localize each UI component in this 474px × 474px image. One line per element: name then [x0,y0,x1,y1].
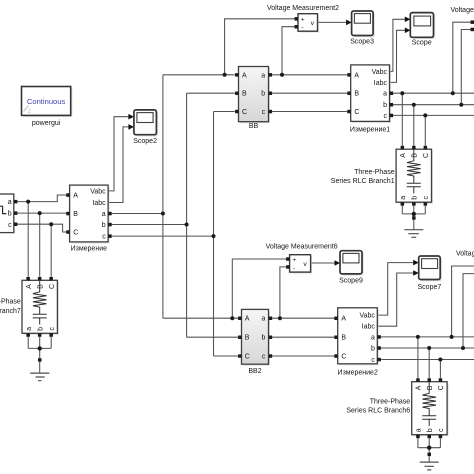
wire Измерение Vabc to Scope2 input 1 [108,117,131,191]
svg-text:Scope: Scope [412,40,432,47]
arrow input 1 Scope [405,17,411,23]
port C of BB2 [238,354,242,358]
svg-text:Scope3: Scope3 [350,38,374,45]
port B of BB [235,92,239,96]
right voltage measurement (cut off at edge) [451,7,474,31]
voltage measurement U-VM2 [267,5,339,32]
svg-text:c: c [384,113,388,120]
svg-text:c: c [49,327,56,331]
port B of RLC1 [412,146,416,150]
port b of source [14,211,18,215]
svg-text:Измерение2: Измерение2 [338,370,378,377]
svg-text:Voltage Measureme: Voltage Measureme [451,7,474,14]
wire BB b to Измерение1 B [272,92,347,94]
wire node b drop to RLC Branch7 B [39,213,41,277]
node junction VM6 plus tap [230,316,234,320]
port c of Измерение1 [390,114,394,118]
port B of Измерение2 [334,336,338,340]
svg-text:c: c [371,357,375,364]
svg-text:A: A [416,385,423,390]
port a of RLC7 [26,333,30,337]
port A of BB2 [238,317,242,321]
svg-text:Series RLC Branch1: Series RLC Branch1 [331,178,395,185]
wire into BB2 A [163,317,238,319]
svg-text:a: a [8,199,12,206]
wire source a to Измерение A [17,195,66,202]
port c of Измерение [108,234,112,238]
wire RLC6 abc tie to ground [418,438,441,461]
wire Измерение b to bus vertical B [112,224,187,226]
port B of RLC6 [428,378,432,382]
node junction VM2 plus tap [223,73,227,77]
wire BB2 c to Измерение2 C [272,355,334,357]
port C of Измерение [66,230,70,234]
svg-text:Iabc: Iabc [374,80,388,87]
measurement block Измерение2 [334,308,381,377]
svg-text:a: a [102,211,106,218]
port plus of VM2 [295,17,299,21]
node junction RLC1 C tap [423,113,427,117]
wire bus vertical phase A [162,75,164,318]
scope Scope2 [128,110,158,145]
wire BB2 b to Измерение2 B [272,336,334,338]
port A of RLC1 [401,146,405,150]
port B of Измерение [66,212,70,216]
svg-text:Voltage Measurement6: Voltage Measurement6 [266,243,338,250]
arrow input Scope3 [346,20,352,26]
arrow input 2 Scope [405,28,411,34]
svg-text:A: A [73,193,78,200]
resistor zigzag of RLC7 [33,281,47,314]
breaker block BB2 [238,309,272,375]
svg-text:Series RLC Branch7: Series RLC Branch7 [0,308,21,315]
ground under RLC1 [402,206,425,238]
node junction right VM plus tap [451,91,455,95]
port A of Измерение [66,193,70,197]
scope Scope9 [335,251,364,285]
port c of Измерение2 [377,358,381,362]
svg-text:b: b [37,327,44,331]
measurement block Измерение [66,185,112,252]
wire Измерение Iabc to Scope2 input 2 [108,127,131,203]
port c of BB2 [269,354,273,358]
svg-text:b: b [427,428,434,432]
wire phase a up to lower right Voltage Measurement plus [452,266,474,337]
capacitor of RLC1 [407,183,421,193]
port a of BB2 [269,317,273,321]
svg-text:C: C [354,109,359,116]
scope Scope [405,13,435,47]
svg-text:powergui: powergui [32,120,61,127]
port A of Измерение2 [334,317,338,321]
svg-text:A: A [242,72,247,79]
svg-text:-: - [301,25,303,32]
svg-text:c: c [262,109,266,116]
wire node c drop to RLC Branch7 C [50,224,52,276]
svg-text:b: b [383,102,387,109]
port a of RLC1 [401,202,405,206]
port A of RLC6 [416,378,420,382]
svg-text:b: b [411,196,418,200]
port minus of right VM [471,28,474,32]
resistor zigzag of RLC6 [422,382,436,415]
port a of BB [269,73,273,77]
svg-text:c: c [262,354,266,361]
node junction bus B [185,223,189,227]
svg-text:B: B [354,91,359,98]
ground under RLC7 [28,337,51,381]
port C of Измерение1 [347,110,351,114]
svg-text:C: C [73,230,78,237]
port A of RLC7 [26,277,30,281]
svg-text:-: - [293,265,295,272]
svg-text:Series RLC Branch6: Series RLC Branch6 [346,408,410,415]
wire Измерение2 Iabc to Scope7 input 2 [377,273,413,326]
wire into BB2 C [214,355,239,357]
svg-text:a: a [383,91,387,98]
node junction RLC6 C tap [438,358,442,362]
svg-text:Измерение: Измерение [71,245,108,252]
wire to Voltage Measurement2 plus [225,19,295,75]
node junction source b / RLC7 B [38,211,42,215]
port b of RLC6 [428,435,432,439]
wire BB2 a to Измерение2 A [272,317,334,319]
svg-text:Измерение1: Измерение1 [350,127,390,134]
svg-text:Iabc: Iabc [92,200,106,207]
port a of Измерение2 [377,335,381,339]
wire Измерение2 Vabc to Scope7 input 1 [377,263,413,316]
svg-text:Three-Phase: Three-Phase [354,169,395,176]
svg-text:b: b [261,91,265,98]
port b of RLC7 [38,333,42,337]
svg-text:A: A [26,284,33,289]
svg-text:A: A [341,316,346,323]
svg-text:Voltage Me: Voltage Me [456,250,474,257]
port b of BB2 [269,336,273,340]
node junction RLC1 B tap [412,103,416,107]
wire Измерение2 c to right edge [381,359,474,361]
node junction RLC1 A tap [400,91,404,95]
arrow input 2 Scope7 [413,270,419,276]
wire Voltage Measurement6 v to Scope9 [312,262,335,264]
port C of BB [235,110,239,114]
node junction RLC6 A tap [416,335,420,339]
wire source c to Измерение C [17,224,66,232]
svg-text:a: a [26,327,33,331]
node junction lower right VM plus tap [450,335,454,339]
svg-text:v: v [303,261,307,268]
node junction RLC6 B tap [427,346,431,350]
port a of Измерение1 [390,92,394,96]
svg-text:+: + [301,17,305,24]
svg-text:B: B [245,335,250,342]
svg-text:b: b [8,211,12,218]
svg-text:+: + [292,257,296,264]
port A of Измерение1 [347,73,351,77]
node junction VM6 minus tap [278,316,282,320]
port b of Измерение [108,223,112,227]
three-phase series RLC branch7 [0,277,59,337]
wire Измерение2 a to right edge [381,336,474,338]
wire into BB2 B [187,336,238,338]
svg-text:v: v [311,20,315,27]
svg-text:B: B [411,153,418,158]
wire node a drop to RLC Branch7 A [27,202,29,277]
svg-text:a: a [371,334,375,341]
port plus of right VM [471,20,474,24]
port C of RLC6 [439,378,443,382]
node junction bus C [212,234,216,238]
node junction source a / RLC7 A [26,200,30,204]
capacitor of RLC7 [33,314,47,324]
svg-text:B: B [73,211,78,218]
svg-text:Scope7: Scope7 [418,284,442,291]
wire phase a up to right Voltage Measurement plus [453,22,471,93]
svg-text:c: c [423,196,430,200]
wire to Voltage Measurement6 minus [280,267,286,318]
port B of RLC7 [38,277,42,281]
wire BB a to Измерение1 A [272,74,347,76]
svg-text:b: b [102,222,106,229]
port a of source [14,200,18,204]
svg-text:Voltage Measurement2: Voltage Measurement2 [267,5,339,12]
capacitor of RLC6 [422,416,436,426]
svg-text:Vabc: Vabc [359,313,375,320]
scope Scope3 [346,11,375,45]
port c of source [14,223,18,227]
svg-text:a: a [416,428,423,432]
svg-text:A: A [354,72,359,79]
wire bus vertical phase B [186,93,188,337]
port c of RLC7 [49,333,53,337]
svg-text:BB: BB [249,123,259,130]
measurement block Измерение1 [347,65,393,134]
wire Измерение1 a to right edge [393,92,474,94]
port b of BB [269,92,273,96]
svg-text:A: A [400,153,407,158]
port c of RLC6 [439,435,443,439]
three-phase series RLC branch1 [331,146,433,206]
svg-text:2: 2 [28,108,32,115]
svg-text:C: C [423,153,430,158]
wire Измерение c to bus vertical C [112,235,214,237]
port b of Измерение2 [377,346,381,350]
wire Измерение1 Vabc to Scope input 1 [390,19,406,71]
wire Измерение1 c to right edge [393,114,474,116]
wire drop to RLC Branch1 A [401,93,403,146]
port B of BB2 [238,336,242,340]
svg-text:B: B [341,335,346,342]
svg-text:C: C [49,284,56,289]
port b of RLC1 [412,202,416,206]
wire drop to RLC Branch1 C [424,115,426,145]
node junction VM2 minus tap [280,73,284,77]
port a of RLC6 [416,435,420,439]
svg-text:Continuous: Continuous [27,97,66,106]
wire source b to Измерение B [17,212,66,214]
svg-text:c: c [438,428,445,432]
svg-text:Scope2: Scope2 [133,138,157,145]
wire Измерение1 b to right edge [393,104,474,106]
wire to Voltage Measurement6 plus [232,259,286,318]
port C of Измерение2 [334,354,338,358]
svg-text:c: c [8,222,12,229]
svg-text:Iabc: Iabc [362,324,376,331]
wire RLC1 abc tie to ground [402,206,425,230]
wire into BB C [214,111,235,113]
wire drop to RLC Branch6 C [439,360,441,379]
arrow input 1 Scope2 [128,114,134,120]
port minus of VM6 [286,265,290,269]
wire drop to RLC Branch6 B [428,348,430,378]
svg-text:B: B [37,284,44,289]
svg-text:a: a [261,72,265,79]
svg-text:b: b [261,335,265,342]
resistor zigzag of RLC1 [407,150,421,183]
svg-text:b: b [371,346,375,353]
port plus of VM6 [286,257,290,261]
node junction bus A [161,212,165,216]
wire Измерение1 Iabc to Scope input 2 [390,30,406,82]
port B of Измерение1 [347,92,351,96]
port A of BB [235,73,239,77]
powergui U-powergui [22,87,73,128]
wire into BB A [163,74,235,76]
node junction right VM minus tap [459,103,463,107]
three-phase source block (cut off at left edge) [0,194,17,233]
wire RLC7 abc tie to ground [28,337,51,373]
svg-text:C: C [242,109,247,116]
port b of Измерение1 [390,103,394,107]
port C of RLC1 [424,146,428,150]
svg-text:BB2: BB2 [248,368,261,375]
svg-text:C: C [341,354,346,361]
wire Измерение2 b to right edge [381,347,474,349]
port c of BB [269,110,273,114]
svg-text:B: B [427,385,434,390]
svg-text:C: C [245,354,250,361]
scope Scope7 [413,256,442,291]
ground under RLC6 [418,438,441,470]
wire BB c to Измерение1 C [272,111,347,113]
svg-text:C: C [438,385,445,390]
svg-text:Vabc: Vabc [90,188,106,195]
svg-text:Vabc: Vabc [372,69,388,76]
port C of RLC7 [49,277,53,281]
wire Измерение a to bus vertical A [112,213,163,215]
svg-text:c: c [102,234,106,241]
wire bus vertical phase C [213,112,215,357]
node junction lower right VM minus tap [461,346,465,350]
wire to Voltage Measurement2 minus [282,27,294,75]
wire into BB B [187,92,235,94]
node junction source c / RLC7 C [49,222,53,226]
svg-text:Scope9: Scope9 [339,278,363,285]
breaker block BB [235,67,272,131]
arrow input 2 Scope2 [128,124,134,130]
wire phase b up to lower right Voltage Measurement minus [463,274,474,348]
arrow input 1 Scope7 [413,260,419,266]
svg-text:B: B [242,91,247,98]
port c of RLC1 [424,202,428,206]
svg-text:a: a [400,196,407,200]
three-phase series RLC branch6 [346,378,448,438]
wire phase b up to right Voltage Measurement minus [461,30,470,105]
wire Voltage Measurement2 v to Scope3 [318,21,347,23]
voltage measurement U-VM6 [266,243,338,273]
wire drop to RLC Branch6 A [417,337,419,378]
wire drop to RLC Branch1 B [413,105,415,146]
port a of Измерение [108,212,112,216]
svg-text:a: a [261,316,265,323]
svg-text:Three-Phase: Three-Phase [0,298,21,305]
arrow input Scope9 [335,260,341,266]
port minus of VM2 [295,25,299,29]
svg-text:A: A [245,316,250,323]
svg-text:Three-Phase: Three-Phase [370,399,411,406]
